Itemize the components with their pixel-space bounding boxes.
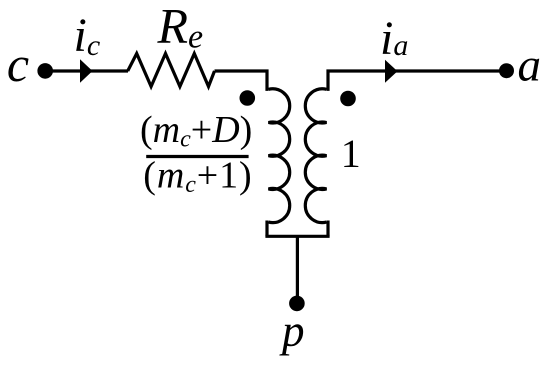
wire c to resistor	[45, 69, 128, 72]
terminal a dot	[499, 63, 514, 78]
right winding polarity dot	[340, 91, 356, 107]
resistor Re	[128, 54, 215, 87]
svg-text:1: 1	[341, 131, 361, 176]
svg-text:a: a	[518, 39, 542, 91]
wire resistor to left winding top	[215, 71, 269, 89]
bottom bar wire	[265, 235, 329, 238]
current arrow i_a	[385, 60, 398, 83]
terminal p dot	[289, 296, 305, 312]
inductor winding right (secondary)	[305, 89, 326, 223]
svg-text:Re: Re	[157, 0, 204, 55]
inductor winding left (primary)	[269, 89, 290, 223]
current arrow i_c	[80, 59, 93, 83]
wire right winding to terminal a	[327, 71, 507, 89]
svg-text:(mc+D): (mc+D)	[140, 109, 252, 153]
fraction bar	[146, 155, 248, 158]
wire to terminal p	[296, 236, 299, 298]
left winding polarity dot	[240, 90, 256, 106]
wire left winding bottom	[267, 222, 269, 236]
svg-text:ia: ia	[380, 12, 408, 65]
svg-text:(mc+1): (mc+1)	[143, 155, 252, 199]
svg-text:ic: ic	[74, 9, 101, 62]
svg-text:c: c	[7, 36, 29, 92]
wire right winding bottom	[327, 222, 329, 236]
terminal c dot	[37, 63, 53, 79]
svg-text:p: p	[279, 306, 305, 356]
